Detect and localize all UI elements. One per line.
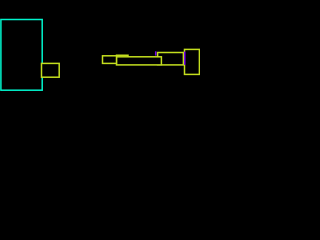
yellow nub on teal body (black filled, occludes teal edge) (42, 63, 60, 77)
right block (185, 49, 200, 74)
collar raised strip (117, 55, 129, 57)
magenta tick (155, 51, 157, 55)
teal rectangle (left body) (1, 20, 42, 91)
magenta line at block (184, 52, 186, 65)
small rect (left end of right assembly) (103, 56, 117, 64)
mid washer rect (behind bar) (158, 53, 184, 65)
long bar rect (black filled, over washer) (117, 57, 162, 65)
